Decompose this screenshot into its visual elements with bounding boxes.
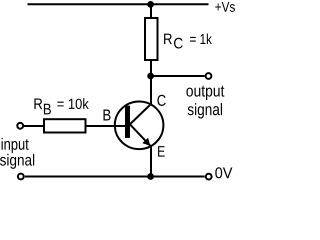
transistor Q1 envelope circle [115,102,164,150]
label output [186,86,224,100]
pin label B [104,110,111,121]
label RB: = 10k [57,98,88,109]
wire +Vs supply rail [28,3,209,5]
pin label E [158,146,165,157]
input signal terminal [17,123,23,129]
wire resistor RB to base [87,125,126,127]
resistor RB body [44,119,86,132]
wire collector node to output terminal [151,75,205,77]
wire input terminal to resistor RB [24,125,44,127]
node junction dot on +Vs rail [147,1,154,8]
output signal terminal [206,73,212,79]
wire resistor RC to collector node [150,60,152,76]
node junction dot collector/output [147,73,154,80]
label input signal [0,154,34,169]
node junction dot emitter/0V rail [147,173,154,180]
pin label C [157,95,165,106]
label RC: R [164,34,172,45]
wire emitter down to 0V rail [150,146,152,177]
label RC: = 1k [190,34,212,45]
label RC: subscript C [174,38,183,49]
transistor Q1 base bar [125,106,130,138]
label RB: R [34,99,42,110]
output ground terminal [206,174,212,180]
wire +Vs rail to resistor RC [150,5,152,18]
label RB: subscript B [44,104,51,115]
input ground terminal [18,174,24,180]
transistor Q1 emitter arrow [142,138,150,146]
resistor RC body [145,18,158,60]
label 0V [215,167,232,178]
transistor Q1 collector stroke [130,104,151,124]
wire collector up to node [150,77,152,105]
label +Vs [215,2,235,12]
label input [2,138,29,153]
wire 0V rail [25,176,205,178]
label output signal [188,103,222,118]
transistor Q1 emitter stroke [130,124,151,146]
